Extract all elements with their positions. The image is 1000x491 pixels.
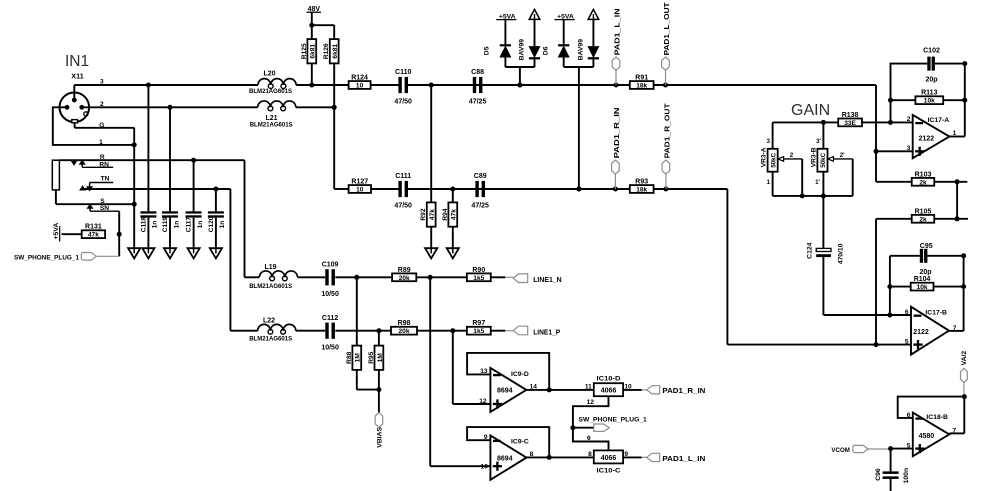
svg-text:13: 13 — [480, 368, 488, 375]
svg-text:R89: R89 — [398, 267, 411, 274]
svg-text:14: 14 — [530, 384, 538, 391]
svg-text:47k: 47k — [429, 209, 436, 220]
svg-text:100n: 100n — [903, 468, 910, 484]
svg-text:C124: C124 — [807, 242, 814, 258]
svg-text:1n: 1n — [219, 221, 226, 229]
svg-text:GAIN: GAIN — [791, 102, 830, 119]
svg-text:SW_PHONE_PLUG_1: SW_PHONE_PLUG_1 — [14, 254, 79, 261]
svg-text:8: 8 — [530, 451, 534, 458]
svg-text:1: 1 — [99, 139, 103, 146]
svg-text:12: 12 — [479, 398, 487, 405]
svg-text:9: 9 — [484, 434, 488, 441]
svg-text:R97: R97 — [472, 320, 485, 327]
svg-text:LINE1_N: LINE1_N — [533, 277, 562, 284]
svg-text:47/25: 47/25 — [471, 203, 489, 210]
svg-text:8694: 8694 — [497, 455, 513, 462]
svg-text:R131: R131 — [85, 224, 102, 231]
svg-text:1n: 1n — [152, 221, 159, 229]
svg-text:47/50: 47/50 — [394, 99, 412, 106]
svg-text:RN: RN — [99, 161, 109, 168]
svg-text:50kC: 50kC — [820, 152, 827, 167]
svg-text:10: 10 — [356, 83, 364, 90]
svg-text:C95: C95 — [920, 243, 933, 250]
svg-text:TN: TN — [101, 175, 110, 182]
svg-text:47/50: 47/50 — [394, 203, 412, 210]
svg-text:10: 10 — [481, 464, 489, 471]
svg-text:2122: 2122 — [913, 329, 929, 336]
svg-text:10/50: 10/50 — [321, 291, 339, 298]
svg-text:6k81: 6k81 — [310, 44, 317, 59]
svg-text:20p: 20p — [925, 76, 937, 83]
svg-text:R: R — [100, 154, 105, 161]
svg-text:5: 5 — [905, 338, 909, 345]
svg-text:L20: L20 — [263, 71, 275, 78]
svg-text:20k: 20k — [399, 275, 410, 282]
svg-text:1M: 1M — [377, 353, 384, 363]
svg-text:PAD1_R_IN: PAD1_R_IN — [662, 388, 705, 395]
svg-text:6: 6 — [905, 309, 909, 316]
svg-text:D5: D5 — [484, 46, 491, 55]
svg-text:R94: R94 — [442, 208, 449, 220]
svg-text:50kC: 50kC — [770, 152, 777, 167]
svg-text:PAD1_L_IN: PAD1_L_IN — [614, 8, 621, 55]
svg-text:4580: 4580 — [919, 433, 935, 440]
svg-text:18k: 18k — [636, 187, 647, 194]
svg-text:6: 6 — [907, 412, 911, 419]
svg-text:IC18-B: IC18-B — [926, 414, 948, 421]
svg-text:12: 12 — [587, 399, 595, 406]
svg-text:10k: 10k — [924, 98, 935, 105]
svg-text:IC17-B: IC17-B — [925, 309, 947, 316]
svg-text:C119: C119 — [162, 217, 169, 233]
svg-text:R138: R138 — [842, 112, 859, 119]
svg-text:IC10-C: IC10-C — [597, 468, 621, 475]
svg-text:C109: C109 — [322, 262, 339, 269]
svg-text:10/50: 10/50 — [321, 344, 339, 351]
svg-text:20k: 20k — [398, 328, 409, 335]
svg-text:C118: C118 — [140, 217, 147, 233]
svg-text:C117: C117 — [186, 217, 193, 233]
svg-text:G: G — [99, 122, 104, 129]
svg-text:1n: 1n — [173, 221, 180, 229]
svg-text:1k5: 1k5 — [473, 328, 484, 335]
svg-text:X11: X11 — [71, 71, 83, 80]
svg-text:BAV99: BAV99 — [578, 39, 585, 61]
svg-text:C89: C89 — [474, 173, 487, 180]
svg-text:R125: R125 — [301, 43, 308, 59]
svg-text:3: 3 — [767, 138, 771, 145]
svg-text:6: 6 — [587, 435, 591, 442]
svg-text:2: 2 — [790, 152, 794, 159]
svg-text:1n: 1n — [197, 221, 204, 229]
svg-text:C96: C96 — [875, 468, 882, 481]
svg-text:D6: D6 — [543, 46, 550, 55]
svg-text:R92: R92 — [420, 208, 427, 220]
svg-text:IC9-C: IC9-C — [511, 438, 529, 445]
svg-text:C111: C111 — [395, 173, 411, 180]
svg-text:20p: 20p — [919, 269, 931, 276]
svg-text:R91: R91 — [635, 75, 648, 82]
svg-text:BAV99: BAV99 — [519, 39, 526, 61]
svg-text:47/25: 47/25 — [469, 99, 487, 106]
svg-text:2: 2 — [907, 116, 911, 123]
svg-text:47k: 47k — [88, 232, 99, 239]
svg-text:R127: R127 — [351, 179, 368, 186]
svg-text:R88: R88 — [346, 351, 353, 363]
svg-text:PAD1_L_IN: PAD1_L_IN — [662, 456, 705, 463]
svg-text:18k: 18k — [636, 83, 647, 90]
svg-text:2122: 2122 — [919, 136, 935, 143]
svg-text:8: 8 — [588, 451, 592, 458]
svg-text:SN: SN — [100, 205, 109, 212]
svg-text:R113: R113 — [921, 90, 937, 97]
svg-text:2: 2 — [100, 101, 104, 108]
svg-text:1k5: 1k5 — [473, 275, 484, 282]
svg-text:R98: R98 — [398, 320, 411, 327]
svg-text:VR3-B: VR3-B — [810, 147, 817, 167]
svg-text:VA/2: VA/2 — [961, 351, 968, 366]
svg-text:8694: 8694 — [497, 388, 513, 395]
svg-text:C112: C112 — [322, 315, 338, 322]
svg-text:VCOM: VCOM — [831, 447, 850, 454]
svg-text:2k: 2k — [919, 216, 927, 223]
svg-text:BLM21AG601S: BLM21AG601S — [249, 88, 293, 95]
svg-text:PAD1_R_IN: PAD1_R_IN — [614, 107, 621, 158]
svg-text:3': 3' — [816, 138, 821, 145]
svg-text:R90: R90 — [472, 267, 485, 274]
svg-text:BLM21AG601S: BLM21AG601S — [249, 283, 293, 290]
svg-text:R126: R126 — [323, 43, 330, 59]
svg-text:BLM21AG601S: BLM21AG601S — [249, 336, 293, 343]
svg-text:R124: R124 — [351, 75, 368, 82]
svg-text:470/10: 470/10 — [838, 243, 845, 264]
svg-text:PAD1_R_OUT: PAD1_R_OUT — [664, 103, 671, 159]
svg-text:VR3-A: VR3-A — [761, 147, 768, 167]
svg-text:IC17-A: IC17-A — [928, 117, 950, 124]
svg-text:SW_PHONE_PLUG_1: SW_PHONE_PLUG_1 — [579, 417, 648, 424]
svg-text:R95: R95 — [368, 351, 375, 363]
svg-text:33E: 33E — [844, 120, 856, 127]
svg-text:1: 1 — [767, 179, 771, 186]
svg-text:BLM21AG601S: BLM21AG601S — [250, 122, 294, 129]
svg-text:IC10-D: IC10-D — [597, 375, 621, 382]
svg-text:10: 10 — [356, 187, 364, 194]
svg-text:C120: C120 — [208, 216, 215, 232]
svg-text:C110: C110 — [395, 69, 411, 76]
svg-text:L22: L22 — [263, 318, 275, 325]
svg-text:11: 11 — [585, 384, 592, 391]
svg-text:R105: R105 — [915, 208, 932, 215]
svg-text:LINE1_P: LINE1_P — [533, 329, 560, 336]
svg-text:4066: 4066 — [601, 388, 617, 395]
svg-text:4066: 4066 — [601, 455, 617, 462]
svg-text:6k81: 6k81 — [332, 44, 339, 59]
svg-text:R103: R103 — [915, 171, 932, 178]
svg-text:C102: C102 — [923, 48, 940, 55]
svg-text:R93: R93 — [635, 179, 648, 186]
svg-text:C88: C88 — [471, 69, 484, 76]
svg-text:10k: 10k — [917, 284, 928, 291]
svg-text:IN1: IN1 — [65, 53, 89, 70]
svg-text:2k: 2k — [919, 179, 927, 186]
svg-text:2': 2' — [840, 152, 845, 159]
svg-text:3: 3 — [100, 79, 104, 86]
svg-text:1': 1' — [815, 179, 820, 186]
svg-text:PAD1_L_OUT: PAD1_L_OUT — [664, 2, 671, 56]
svg-text:R104: R104 — [914, 276, 931, 283]
svg-text:1M: 1M — [355, 353, 362, 363]
svg-text:47k: 47k — [451, 209, 458, 220]
svg-text:IC9-D: IC9-D — [511, 371, 529, 378]
svg-text:S: S — [100, 198, 105, 205]
svg-text:L19: L19 — [264, 264, 276, 271]
svg-text:VBIAS: VBIAS — [376, 427, 383, 448]
svg-text:3: 3 — [907, 145, 911, 152]
